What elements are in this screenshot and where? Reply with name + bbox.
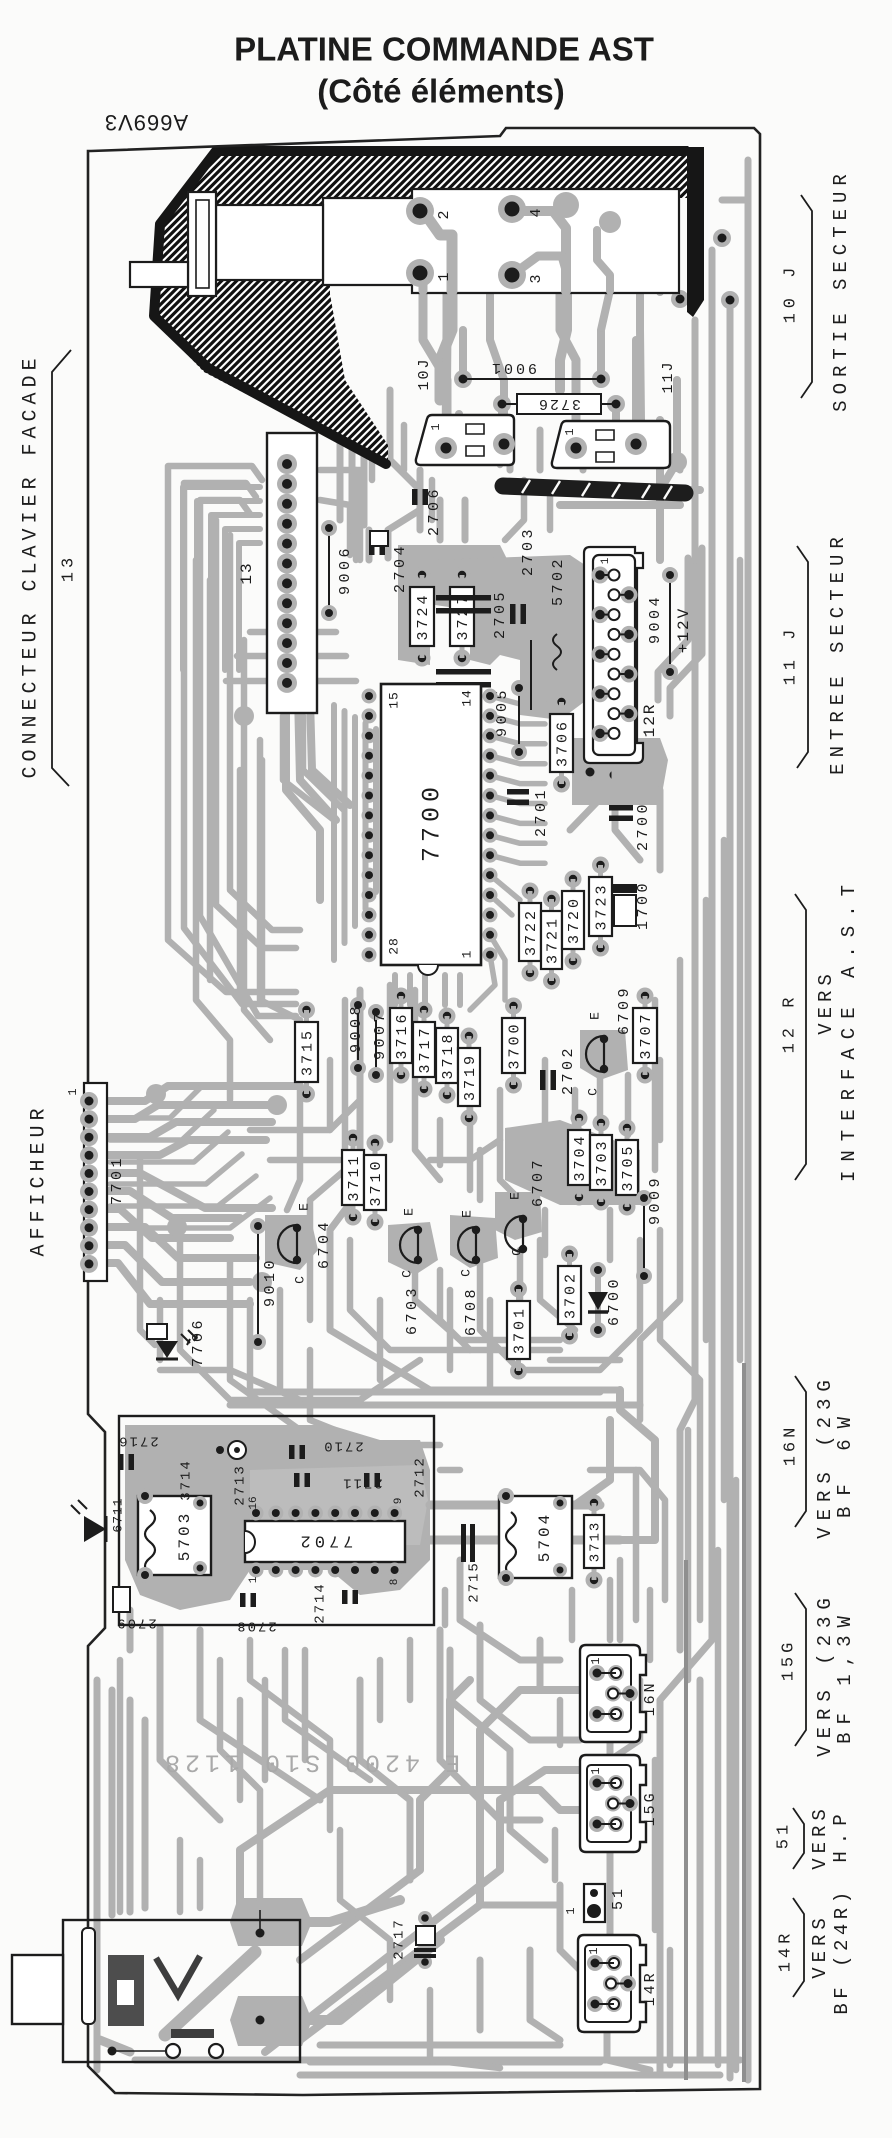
svg-text:3702: 3702: [562, 1271, 579, 1319]
svg-text:2714: 2714: [313, 1582, 329, 1624]
svg-text:2713: 2713: [233, 1464, 249, 1506]
svg-text:16N: 16N: [781, 1424, 800, 1467]
svg-text:6709: 6709: [616, 985, 633, 1035]
svg-text:3720: 3720: [566, 896, 583, 944]
svg-text:3718: 3718: [440, 1031, 457, 1079]
svg-text:7700: 7700: [418, 782, 447, 862]
svg-text:9010: 9010: [262, 1257, 279, 1307]
svg-text:2701: 2701: [533, 787, 550, 837]
svg-text:1: 1: [248, 1576, 260, 1583]
svg-text:2708: 2708: [235, 1617, 277, 1633]
svg-text:3706: 3706: [554, 719, 571, 767]
svg-text:1: 1: [436, 272, 453, 281]
svg-text:12 R: 12 R: [780, 993, 799, 1054]
svg-text:H.P: H.P: [830, 1807, 852, 1862]
svg-text:E: E: [587, 1012, 602, 1020]
svg-text:2717: 2717: [392, 1918, 408, 1960]
svg-text:3: 3: [528, 274, 545, 283]
svg-text:CONNECTEUR CLAVIER FACADE: CONNECTEUR CLAVIER FACADE: [19, 353, 42, 778]
svg-text:3723: 3723: [593, 882, 610, 930]
svg-text:3714: 3714: [179, 1459, 195, 1501]
svg-text:3717: 3717: [417, 1025, 434, 1073]
svg-text:9008: 9008: [348, 1003, 365, 1053]
svg-text:BF 6W: BF 6W: [834, 1406, 856, 1518]
svg-text:E: E: [459, 1210, 474, 1218]
svg-text:VERS: VERS: [815, 969, 837, 1035]
svg-text:C: C: [458, 1269, 473, 1277]
svg-text:1700: 1700: [635, 880, 652, 930]
svg-text:E: E: [296, 1203, 311, 1211]
svg-text:13: 13: [59, 554, 78, 582]
svg-text:3724: 3724: [415, 592, 432, 640]
svg-text:INTERFACE A.S.T: INTERFACE A.S.T: [838, 876, 860, 1182]
svg-text:4: 4: [528, 208, 545, 217]
svg-text:3707: 3707: [638, 1011, 655, 1059]
svg-text:5702: 5702: [550, 556, 567, 606]
svg-text:15: 15: [386, 691, 401, 709]
svg-text:16: 16: [248, 1496, 260, 1509]
svg-text:+12V: +12V: [675, 607, 693, 653]
svg-text:2702: 2702: [560, 1045, 577, 1095]
svg-text:8: 8: [389, 1579, 401, 1586]
svg-text:9007: 9007: [372, 1010, 389, 1060]
svg-text:7706: 7706: [190, 1317, 207, 1367]
svg-text:9004: 9004: [647, 594, 664, 644]
svg-text:3705: 3705: [620, 1143, 637, 1191]
svg-text:14R: 14R: [776, 1930, 795, 1973]
svg-text:C: C: [509, 1248, 524, 1256]
svg-text:5704: 5704: [536, 1512, 554, 1562]
svg-text:7702: 7702: [297, 1531, 354, 1550]
svg-text:VERS: VERS: [809, 1913, 831, 1979]
svg-text:3713: 3713: [588, 1521, 604, 1563]
svg-text:7701: 7701: [109, 1155, 126, 1205]
svg-text:11 J: 11 J: [781, 625, 800, 686]
svg-text:2703: 2703: [520, 526, 537, 576]
svg-text:6711: 6711: [110, 1497, 125, 1532]
svg-text:1: 1: [587, 1947, 601, 1954]
svg-text:3710: 3710: [368, 1158, 385, 1206]
svg-text:ENTREE SECTEUR: ENTREE SECTEUR: [827, 531, 849, 775]
svg-text:14R: 14R: [642, 1970, 659, 2006]
svg-text:VERS (23G: VERS (23G: [814, 1373, 836, 1539]
svg-text:2709: 2709: [115, 1614, 157, 1630]
svg-text:16N: 16N: [642, 1680, 659, 1716]
svg-text:2706: 2706: [426, 486, 443, 536]
svg-text:9001: 9001: [489, 359, 537, 376]
svg-text:2: 2: [436, 210, 453, 219]
svg-text:51: 51: [774, 1821, 793, 1849]
svg-text:3715: 3715: [299, 1028, 316, 1076]
svg-text:51: 51: [610, 1886, 627, 1910]
svg-text:15G: 15G: [779, 1639, 798, 1682]
svg-text:6700: 6700: [606, 1276, 623, 1326]
svg-text:2705: 2705: [492, 589, 509, 639]
svg-text:C: C: [399, 1270, 414, 1278]
svg-text:12R: 12R: [641, 703, 659, 738]
svg-text:1: 1: [600, 557, 612, 564]
svg-text:E: E: [401, 1208, 416, 1216]
svg-text:28: 28: [386, 937, 401, 955]
svg-text:SORTIE SECTEUR: SORTIE SECTEUR: [830, 168, 852, 412]
svg-text:1: 1: [589, 1657, 603, 1664]
svg-text:13: 13: [238, 561, 256, 584]
svg-text:3700: 3700: [506, 1021, 523, 1069]
svg-text:14: 14: [459, 689, 474, 707]
svg-text:3711: 3711: [346, 1153, 363, 1201]
svg-text:3726: 3726: [537, 395, 581, 412]
svg-text:3701: 3701: [511, 1306, 528, 1354]
svg-text:BF 1,3W: BF 1,3W: [834, 1608, 856, 1744]
svg-text:2712: 2712: [413, 1456, 429, 1498]
svg-text:2715: 2715: [467, 1561, 483, 1603]
svg-text:5703: 5703: [176, 1511, 194, 1561]
svg-text:BF (24R): BF (24R): [831, 1887, 853, 2014]
svg-text:1: 1: [564, 1907, 578, 1914]
svg-text:3703: 3703: [594, 1138, 611, 1186]
svg-text:2704: 2704: [392, 543, 409, 593]
svg-text:AFFICHEUR: AFFICHEUR: [27, 1103, 50, 1256]
svg-text:2700: 2700: [635, 801, 652, 851]
svg-text:C: C: [292, 1276, 307, 1284]
svg-text:10 J: 10 J: [781, 263, 800, 324]
svg-text:6708: 6708: [463, 1286, 480, 1336]
svg-text:1: 1: [589, 1767, 603, 1774]
svg-text:1: 1: [66, 1088, 80, 1095]
svg-text:3719: 3719: [462, 1053, 479, 1101]
svg-text:1: 1: [429, 423, 443, 430]
svg-text:3716: 3716: [394, 1011, 411, 1059]
svg-text:E 4200 S10 1128: E 4200 S10 1128: [160, 1747, 460, 1776]
svg-text:9009: 9009: [647, 1175, 664, 1225]
svg-text:(Côté éléments): (Côté éléments): [317, 73, 565, 110]
svg-text:1: 1: [459, 950, 474, 959]
svg-text:10J: 10J: [416, 357, 433, 390]
svg-text:6707: 6707: [530, 1157, 547, 1207]
svg-text:VERS: VERS: [809, 1804, 831, 1870]
svg-text:11J: 11J: [660, 360, 677, 393]
svg-text:1: 1: [563, 428, 577, 435]
svg-text:9006: 9006: [337, 545, 354, 595]
svg-text:PLATINE COMMANDE AST: PLATINE COMMANDE AST: [234, 31, 654, 68]
svg-text:6704: 6704: [316, 1219, 333, 1269]
svg-text:C: C: [585, 1088, 600, 1096]
svg-text:VERS (23G: VERS (23G: [814, 1591, 836, 1757]
svg-text:15G: 15G: [642, 1790, 659, 1826]
svg-text:2710: 2710: [322, 1437, 364, 1453]
svg-text:2716: 2716: [117, 1432, 159, 1448]
svg-text:6703: 6703: [404, 1285, 421, 1335]
svg-text:3721: 3721: [544, 916, 561, 964]
svg-text:3704: 3704: [572, 1133, 589, 1181]
svg-text:E: E: [507, 1192, 522, 1200]
svg-text:3722: 3722: [523, 908, 540, 956]
svg-text:A669V3: A669V3: [104, 110, 188, 135]
svg-text:9: 9: [393, 1498, 405, 1505]
